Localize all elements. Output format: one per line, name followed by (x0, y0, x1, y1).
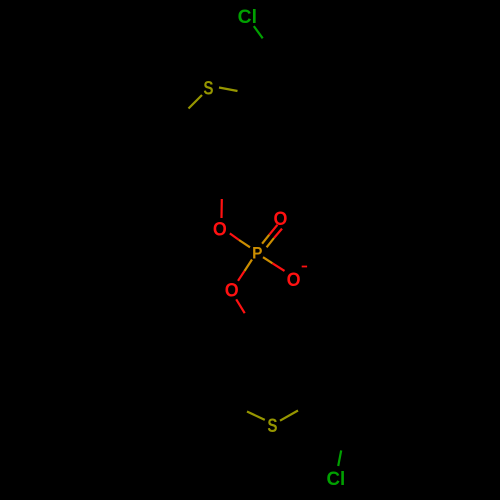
bond C-O vertical (oxygen half) (220, 199, 223, 218)
bond O-P lower (phosphorus half) (245, 260, 253, 272)
svg-text:Cl: Cl (327, 469, 346, 490)
svg-text:O: O (225, 279, 239, 301)
svg-text:O: O (287, 268, 301, 290)
bond Cl-CH2 bottom (green half) (338, 450, 341, 466)
svg-text:S: S (267, 414, 277, 436)
bond S-CH2 up-left (sulfur half) (247, 412, 265, 420)
bond P-O- (oxygen half) (273, 263, 285, 271)
bond O-P (phosphorus half) (239, 240, 250, 247)
double bond P=O line A (oxygen half) (269, 225, 277, 235)
bond S-CH3 down-left (sulfur half) (189, 95, 203, 109)
svg-text:S: S (203, 77, 213, 99)
double bond P=O line B (oxygen half) (274, 229, 282, 238)
double bond P=O line A (phosphorus half) (262, 235, 269, 244)
minus charge dash (302, 266, 307, 268)
svg-text:O: O (213, 218, 227, 240)
bond O-P (oxygen half) (230, 233, 239, 240)
bond S-C up-right (sulfur half) (280, 411, 298, 421)
bond O-CH2 lower (oxygen half) (236, 299, 245, 313)
bond Cl-CH2 (green half) (254, 26, 263, 38)
bond S-C right (sulfur half) (219, 88, 238, 92)
bond O-P lower (oxygen half) (238, 271, 245, 281)
svg-text:Cl: Cl (238, 7, 257, 28)
bond P-O- (phosphorus half) (263, 257, 273, 263)
double bond P=O line B (phosphorus half) (267, 238, 274, 247)
svg-text:P: P (252, 245, 263, 262)
